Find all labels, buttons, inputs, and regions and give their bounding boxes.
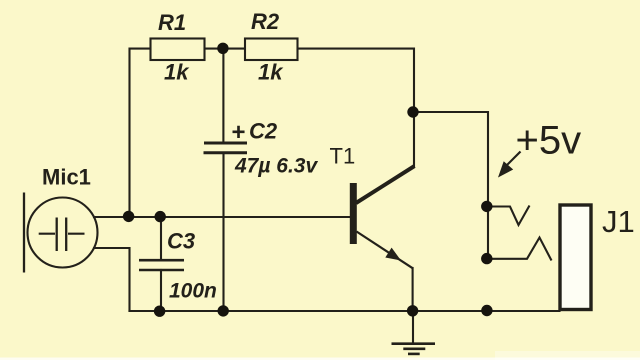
resistor R1 (151, 10, 205, 85)
svg-text:R2: R2 (251, 9, 280, 34)
svg-text:1k: 1k (258, 60, 284, 85)
transistor T1 (350, 166, 415, 268)
bottom edge light strip (0, 358, 640, 360)
wire C3 branch lower (160, 270, 162, 311)
junction node R1/R2/C2 (217, 43, 228, 54)
jack contact V (tip) (487, 206, 530, 226)
junction node emitter/ground (407, 305, 418, 316)
jack contact peak (ring) (487, 238, 552, 261)
microphone Mic1 (24, 193, 98, 273)
wire C2 branch upper (222, 49, 224, 143)
svg-text:C3: C3 (167, 229, 195, 254)
wire +5v feed: node to jack contacts vertical (413, 112, 488, 259)
junction node rail/jack sleeve (481, 305, 492, 316)
svg-text:R1: R1 (158, 10, 186, 35)
svg-text:47µ 6.3v: 47µ 6.3v (234, 155, 318, 178)
junction node jack ring contact (481, 253, 492, 264)
wire C2 branch lower (crosses base wire, no junction) (222, 153, 224, 311)
svg-text:Mic1: Mic1 (42, 165, 91, 190)
svg-text:+: + (232, 119, 246, 146)
wire R2 right to collector vertical (298, 49, 415, 166)
junction node collector/+5v (407, 106, 418, 117)
wire left vertical from R1 left down to mic node (130, 49, 151, 217)
svg-text:C2: C2 (249, 119, 278, 144)
svg-text:J1: J1 (602, 204, 635, 239)
svg-text:+5v: +5v (516, 119, 582, 163)
capacitor C2 (204, 119, 319, 178)
wire mic lower terminal to ground rail (94, 248, 130, 311)
wire base: mic to transistor base (94, 216, 350, 218)
svg-text:100n: 100n (169, 280, 217, 303)
wire emitter vertical (412, 268, 414, 311)
junction node base/C3 (155, 211, 166, 222)
resistor R2 (245, 9, 298, 85)
ground (392, 311, 436, 354)
+5v arrow (498, 152, 521, 178)
svg-text:T1: T1 (330, 144, 356, 169)
wire ground rail (130, 310, 560, 312)
jack J1 body (560, 205, 591, 310)
wire R1 to R2 (205, 48, 246, 50)
junction node C3/ground rail (154, 306, 165, 317)
capacitor C3 (139, 229, 217, 303)
svg-text:1k: 1k (164, 60, 190, 85)
junction node C2/ground rail (218, 305, 229, 316)
junction node mic+/R1 (123, 211, 134, 222)
junction node jack tip contact (481, 201, 492, 212)
wire C3 branch upper (160, 217, 162, 260)
